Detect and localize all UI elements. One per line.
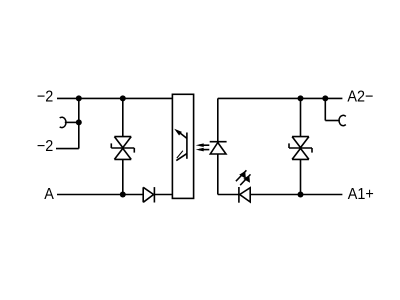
junction -2 rail left	[76, 95, 82, 101]
suppressor diode TVS2	[289, 137, 312, 160]
junction TVS1 top	[120, 95, 126, 101]
wire diode to box	[154, 194, 172, 196]
wire LED2 top lead	[217, 98, 219, 141]
clamp contact right	[339, 115, 346, 125]
LED D2 opto emitter	[210, 142, 227, 154]
diode D1	[143, 187, 154, 202]
svg-text:A: A	[44, 185, 54, 203]
junction TVS1 bottom	[120, 192, 126, 198]
wire TVS2 bottom lead	[300, 159, 302, 194]
svg-text:−2: −2	[37, 88, 53, 106]
wire clamp stub left	[65, 121, 79, 123]
suppressor diode TVS1	[111, 137, 134, 160]
LED D3 indicator	[239, 187, 250, 203]
wire top-right rail	[218, 97, 343, 99]
svg-text:A2−: A2−	[347, 88, 373, 106]
LED D3 light arrows	[236, 170, 251, 185]
wire vertical from -2 junction	[78, 98, 80, 148]
wire lower -2 stub	[56, 148, 79, 150]
wire TVS2 top lead	[300, 98, 302, 136]
optocoupler U1 body	[172, 94, 193, 198]
junction clamp tap left	[76, 119, 82, 125]
svg-text:−2: −2	[37, 138, 53, 156]
wire LED2 bottom lead	[217, 154, 219, 195]
wire A rail	[57, 194, 143, 196]
wire bottom rail left part	[218, 194, 239, 196]
junction TVS2 top	[298, 95, 304, 101]
junction clamp tap right	[322, 95, 328, 101]
wire clamp branch vertical	[324, 98, 326, 120]
wire bottom rail right part	[250, 194, 342, 196]
wire top-left rail	[57, 97, 172, 99]
clamp contact left	[60, 117, 66, 127]
wire clamp branch horizontal	[325, 120, 340, 122]
svg-text:A1+: A1+	[348, 185, 374, 203]
transistor Q1 phototransistor	[174, 129, 187, 161]
wire TVS1 top lead	[122, 98, 124, 136]
light arrows to phototransistor	[196, 143, 210, 151]
junction TVS2 bottom	[298, 192, 304, 198]
wire TVS1 bottom lead	[122, 159, 124, 194]
